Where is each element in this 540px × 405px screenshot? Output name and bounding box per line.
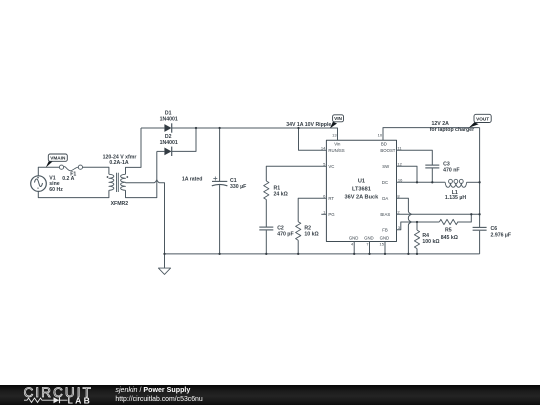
- svg-text:BIAS: BIAS: [380, 212, 390, 217]
- svg-text:15: 15: [380, 242, 385, 247]
- label R2 value: [304, 225, 318, 237]
- svg-text:13: 13: [332, 133, 337, 138]
- svg-text:10: 10: [378, 133, 383, 138]
- svg-text:LT3681: LT3681: [352, 186, 371, 192]
- svg-text:34V 1A 10V Ripple: 34V 1A 10V Ripple: [286, 122, 331, 128]
- svg-text:RT: RT: [328, 196, 334, 201]
- wire secondary top lead to D1: [126, 128, 142, 174]
- svg-text:1A rated: 1A rated: [182, 176, 203, 182]
- svg-text:Vin: Vin: [334, 142, 341, 147]
- label node VOUT note: [430, 121, 474, 133]
- svg-text:FB: FB: [382, 227, 388, 232]
- flag VMAIN: [46, 154, 68, 168]
- IC U1 LT3681 buck regulator body: [326, 140, 396, 241]
- wire VC to R1: [266, 166, 326, 181]
- svg-text:http://circuitlab.com/c53c6nu: http://circuitlab.com/c53c6nu: [115, 396, 202, 403]
- label R4 value: [422, 233, 439, 245]
- wire V1 top lead: [38, 167, 59, 176]
- svg-text:GND: GND: [364, 236, 374, 241]
- label U1 name: [345, 179, 380, 201]
- svg-text:SW: SW: [382, 164, 390, 169]
- svg-text:845 kΩ: 845 kΩ: [441, 235, 458, 241]
- svg-text:6: 6: [323, 193, 326, 198]
- svg-text:100 kΩ: 100 kΩ: [422, 239, 439, 245]
- wire D2 cathode up to top rail: [172, 128, 196, 151]
- svg-text:36V 2A Buck: 36V 2A Buck: [345, 195, 380, 201]
- label F1 value: [62, 172, 76, 182]
- label D1 value: [160, 110, 178, 122]
- label R1 value: [274, 185, 288, 197]
- junction RUN/SS branch on VIN rail: [297, 127, 299, 129]
- wire center tap with hop to ground rail: [126, 180, 165, 254]
- junction R4 top on FB line: [416, 221, 418, 223]
- svg-text:16: 16: [398, 177, 403, 182]
- svg-text:4: 4: [351, 242, 354, 247]
- svg-text:470 nF: 470 nF: [443, 167, 459, 173]
- label D2 value: [160, 134, 178, 146]
- svg-text:U1: U1: [358, 179, 365, 185]
- svg-text:BOOST: BOOST: [380, 148, 395, 153]
- svg-text:C6: C6: [491, 226, 498, 232]
- capacitor C1: [212, 128, 228, 254]
- CircuitLab logo: [24, 385, 93, 405]
- label C3 value: [443, 161, 459, 173]
- capacitor C3: [425, 165, 439, 182]
- flag VIN: [330, 115, 344, 128]
- wire FB jog to divider: [397, 222, 440, 230]
- svg-text:R1: R1: [274, 185, 281, 191]
- svg-text:GND: GND: [380, 236, 390, 241]
- inductor L1: [445, 179, 466, 187]
- label R5 value: [441, 228, 458, 241]
- junction C2 bottom on ground rail: [265, 253, 267, 255]
- svg-text:DC: DC: [382, 180, 388, 185]
- junction DA wire on ground rail: [407, 253, 409, 255]
- svg-text:14: 14: [321, 145, 326, 150]
- wire ground rail: [165, 253, 480, 255]
- junction R4 bottom on ground rail: [416, 253, 418, 255]
- wire BOOST to C3: [397, 150, 433, 165]
- capacitor C2: [259, 227, 273, 254]
- junction SW branch on DC line: [416, 181, 418, 183]
- diode D1: [141, 123, 172, 132]
- svg-text:BD: BD: [381, 142, 387, 147]
- wire V1 bottom lead: [38, 190, 109, 197]
- junction C3 bottom on DC line: [431, 181, 433, 183]
- wire secondary bottom lead to D2: [126, 151, 157, 197]
- svg-text:for laptop charger: for laptop charger: [430, 127, 474, 133]
- svg-text:GND: GND: [349, 236, 359, 241]
- svg-text:DA: DA: [382, 196, 388, 201]
- label XFMR2 value: [103, 155, 137, 208]
- wire R1 to C2: [265, 200, 267, 227]
- resistor R5: [439, 219, 457, 224]
- svg-text:10 kΩ: 10 kΩ: [304, 231, 318, 237]
- junction GND pin 15 on ground rail: [384, 253, 386, 255]
- svg-text:D2: D2: [165, 134, 172, 140]
- svg-text:XFMR2: XFMR2: [111, 201, 129, 207]
- svg-text:VIN: VIN: [334, 116, 342, 121]
- label L1 value: [445, 190, 466, 201]
- junction GND pin 7 on ground rail: [368, 253, 370, 255]
- svg-text:2.976 µF: 2.976 µF: [491, 233, 512, 239]
- capacitor C6: [473, 227, 487, 254]
- wire RUN/SS branch: [299, 128, 327, 150]
- svg-text:330 µF: 330 µF: [230, 184, 246, 190]
- junction L1 output on VOUT rail: [478, 181, 480, 183]
- svg-text:sjenkin / Power Supply: sjenkin / Power Supply: [115, 386, 190, 394]
- svg-text:1: 1: [323, 209, 326, 214]
- svg-text:VC: VC: [328, 164, 334, 169]
- wire RT to R2: [298, 198, 326, 221]
- wire fuse to transformer: [83, 167, 109, 174]
- junction R5 to BIAS line: [470, 213, 472, 215]
- svg-text:1N4001: 1N4001: [160, 117, 178, 123]
- junction C1 bottom on ground rail: [218, 253, 220, 255]
- wire Vin pin 13 from flag: [383, 128, 480, 141]
- label V1 value: [49, 175, 63, 193]
- svg-text:0.2A-1A: 0.2A-1A: [109, 160, 129, 166]
- svg-text:60 Hz: 60 Hz: [49, 187, 63, 193]
- wire L1 to output rail: [467, 181, 480, 183]
- svg-text:VMAIN: VMAIN: [50, 156, 66, 161]
- resistor R4: [414, 230, 419, 249]
- svg-text:12: 12: [397, 161, 402, 166]
- voltage source V1: [31, 176, 47, 192]
- svg-text:24 kΩ: 24 kΩ: [274, 192, 288, 198]
- wire D1 cathode / top rail to VIN: [172, 128, 338, 140]
- svg-text:RUN/SS: RUN/SS: [328, 148, 344, 153]
- wire R4 to ground rail: [416, 249, 418, 254]
- wire GND pin 4: [353, 242, 355, 254]
- wire SW branch: [397, 166, 418, 182]
- fuse F1: [59, 165, 82, 171]
- pin stub PG: [321, 213, 326, 215]
- wire BIAS to output rail: [397, 213, 480, 215]
- label C6 value: [491, 226, 512, 239]
- wire DC to L1: [397, 181, 446, 183]
- svg-text:8: 8: [397, 193, 400, 198]
- diode D2: [157, 147, 172, 156]
- wire R4 top: [416, 222, 418, 230]
- resistor R1: [264, 181, 269, 200]
- ground: [158, 254, 170, 275]
- svg-text:470 pF: 470 pF: [277, 231, 293, 237]
- junction BIAS on VOUT rail: [478, 213, 480, 215]
- svg-text:11: 11: [397, 145, 402, 150]
- resistor R2: [296, 222, 301, 241]
- wire GND pin 15: [384, 242, 386, 254]
- svg-text:D1: D1: [165, 110, 172, 116]
- junction D2 cathode to VIN rail: [195, 127, 197, 129]
- svg-text:7: 7: [366, 242, 369, 247]
- transformer XFMR2: [107, 173, 129, 192]
- svg-text:0.2 A: 0.2 A: [62, 176, 74, 182]
- junction R2 bottom on ground rail: [297, 253, 299, 255]
- junction GND pin 4 on ground rail: [353, 253, 355, 255]
- svg-text:5: 5: [323, 161, 326, 166]
- svg-text:R5: R5: [445, 228, 452, 234]
- svg-text:VOUT: VOUT: [476, 117, 489, 122]
- svg-text:1N4001: 1N4001: [160, 140, 178, 146]
- label C2 value: [277, 225, 293, 237]
- wire R5 to BIAS line: [457, 214, 471, 222]
- svg-text:1.135 µH: 1.135 µH: [445, 195, 466, 201]
- svg-text:2: 2: [397, 209, 400, 214]
- wire R2 to ground rail: [297, 240, 299, 254]
- junction C1 top on VIN rail: [218, 127, 220, 129]
- junction ground node: [163, 253, 165, 255]
- wire GND pin 7: [369, 242, 371, 254]
- wire output rail: [479, 128, 481, 228]
- svg-text:PG: PG: [328, 212, 335, 217]
- svg-text:R4: R4: [422, 233, 429, 239]
- label C1 value: [230, 178, 246, 190]
- wire DA to ground with hops: [397, 198, 412, 254]
- svg-text:LAB: LAB: [68, 396, 93, 405]
- flag VOUT: [469, 114, 491, 128]
